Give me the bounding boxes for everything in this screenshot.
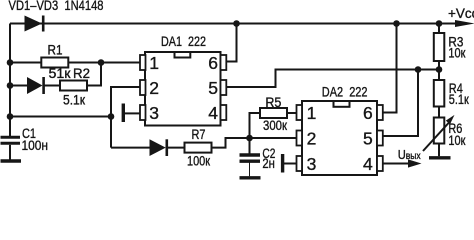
DA2 pin 3 stub xyxy=(297,156,303,171)
wire VD2 row xyxy=(10,85,60,87)
DA1 pin 2 stub xyxy=(140,80,146,95)
+Vcc arrow xyxy=(455,20,474,27)
svg-text:Uвых: Uвых xyxy=(398,147,421,162)
svg-text:1: 1 xyxy=(307,103,317,123)
svg-text:6: 6 xyxy=(208,53,218,73)
diode VD2 xyxy=(27,77,44,94)
chip DA1 T-bar on pin 3 xyxy=(122,104,125,123)
svg-text:4: 4 xyxy=(208,103,218,123)
DA2 pin 5 stub xyxy=(377,131,383,146)
chip DA2 notch xyxy=(334,101,350,107)
R6 wiper arrow xyxy=(423,115,455,151)
DA1 pin 1 stub xyxy=(140,55,146,70)
svg-text:VD1–VD3 1N4148: VD1–VD3 1N4148 xyxy=(9,0,104,13)
svg-text:300к: 300к xyxy=(263,118,287,133)
node junction: mid rail / DA2 pin5 xyxy=(415,66,422,73)
node junction: top rail / DA2 pin6 xyxy=(393,20,400,27)
chip DA2 T-bar on pin 3 xyxy=(281,154,284,173)
wire DA1 pin6 to +Vcc xyxy=(226,24,236,62)
DA2 pin 6 stub xyxy=(377,105,383,120)
svg-text:10к: 10к xyxy=(448,133,465,148)
node junction: top rail / R3 top xyxy=(436,20,443,27)
node junction: R7 / R5 / C2 / DA2 pin2 xyxy=(246,135,253,142)
svg-text:5.1к: 5.1к xyxy=(449,92,469,107)
wire top rail +Vcc xyxy=(10,23,455,25)
DA2 pin 1 stub xyxy=(297,105,303,120)
DA2 pin 4 stub xyxy=(377,156,383,171)
svg-text:R5: R5 xyxy=(265,95,281,110)
wire C1 row xyxy=(10,116,111,118)
wire DA2 pin6 to +Vcc xyxy=(383,24,397,113)
DA2 pin 2 stub xyxy=(297,131,303,146)
svg-text:100н: 100н xyxy=(22,138,49,153)
wire R3 chain xyxy=(438,24,440,157)
svg-text:2н: 2н xyxy=(262,156,275,171)
svg-text:1: 1 xyxy=(149,53,159,73)
wire R1 row xyxy=(10,62,141,64)
svg-text:10к: 10к xyxy=(448,46,465,61)
resistor R2 xyxy=(60,81,87,91)
resistor R7 xyxy=(185,143,212,153)
svg-text:6: 6 xyxy=(363,103,373,123)
DA1 pin 3 stub xyxy=(140,105,146,120)
wire DA2 pin4 output xyxy=(383,163,412,165)
DA1 pin 4 stub xyxy=(221,105,227,120)
node junction: R1 right / riser to R2 xyxy=(98,59,105,66)
wire DA1 pin5 to R3/R4 node xyxy=(226,70,439,88)
wire riser R1/R2 xyxy=(87,63,101,86)
svg-text:DA2 222: DA2 222 xyxy=(322,84,368,99)
DA1 pin 5 stub xyxy=(221,80,227,95)
IC DA1 body xyxy=(145,52,221,126)
svg-text:2: 2 xyxy=(307,129,317,149)
resistor R6 (variable) xyxy=(434,118,445,144)
svg-text:100к: 100к xyxy=(187,154,210,169)
ground (C2) xyxy=(240,176,261,179)
svg-text:DA1 222: DA1 222 xyxy=(161,34,206,49)
chip DA2 body xyxy=(302,101,377,175)
svg-text:5: 5 xyxy=(363,129,373,149)
resistor R5 xyxy=(260,108,287,118)
svg-text:3: 3 xyxy=(307,154,317,174)
wire DA1 pin2 row xyxy=(111,87,141,148)
svg-text:5: 5 xyxy=(208,78,218,98)
svg-text:+Vcc: +Vcc xyxy=(448,6,474,21)
svg-text:R7: R7 xyxy=(192,127,206,142)
resistor R3 xyxy=(434,33,445,61)
wire VD3-R7 row xyxy=(111,138,297,148)
svg-text:4: 4 xyxy=(363,154,373,174)
wire C2 branch xyxy=(249,138,251,154)
DA1 pin 6 stub xyxy=(221,55,227,70)
wire DA2 pin5 riser xyxy=(383,70,419,137)
wire R5 branch xyxy=(250,113,297,138)
Uvyh output arrow xyxy=(408,159,422,167)
ground (C1) xyxy=(1,159,22,162)
node junction: left rail / C1 row xyxy=(7,113,14,120)
wire left rail xyxy=(9,24,11,138)
ground (R6) xyxy=(429,156,451,159)
node junction: mid rail / R3-R4 xyxy=(436,66,443,73)
diode VD3 xyxy=(150,139,167,156)
svg-text:R2: R2 xyxy=(73,66,90,81)
capacitor C2 xyxy=(240,155,261,176)
node junction: left rail / R1 row xyxy=(7,59,14,66)
svg-text:5.1к: 5.1к xyxy=(63,93,85,108)
svg-text:2: 2 xyxy=(149,78,159,98)
node junction: C1 row / pin2-VD3 riser xyxy=(108,113,115,120)
node junction: left rail / VD2 row xyxy=(7,82,14,89)
resistor R4 xyxy=(434,80,445,107)
svg-text:3: 3 xyxy=(149,103,159,123)
svg-text:51к: 51к xyxy=(49,66,71,81)
resistor R1 xyxy=(41,58,68,68)
diode VD1 xyxy=(25,16,44,32)
node junction: top rail / DA1 pin6 xyxy=(233,20,240,27)
capacitor C1 xyxy=(1,137,21,160)
chip DA1 notch xyxy=(175,52,191,58)
svg-text:R1: R1 xyxy=(48,43,63,58)
